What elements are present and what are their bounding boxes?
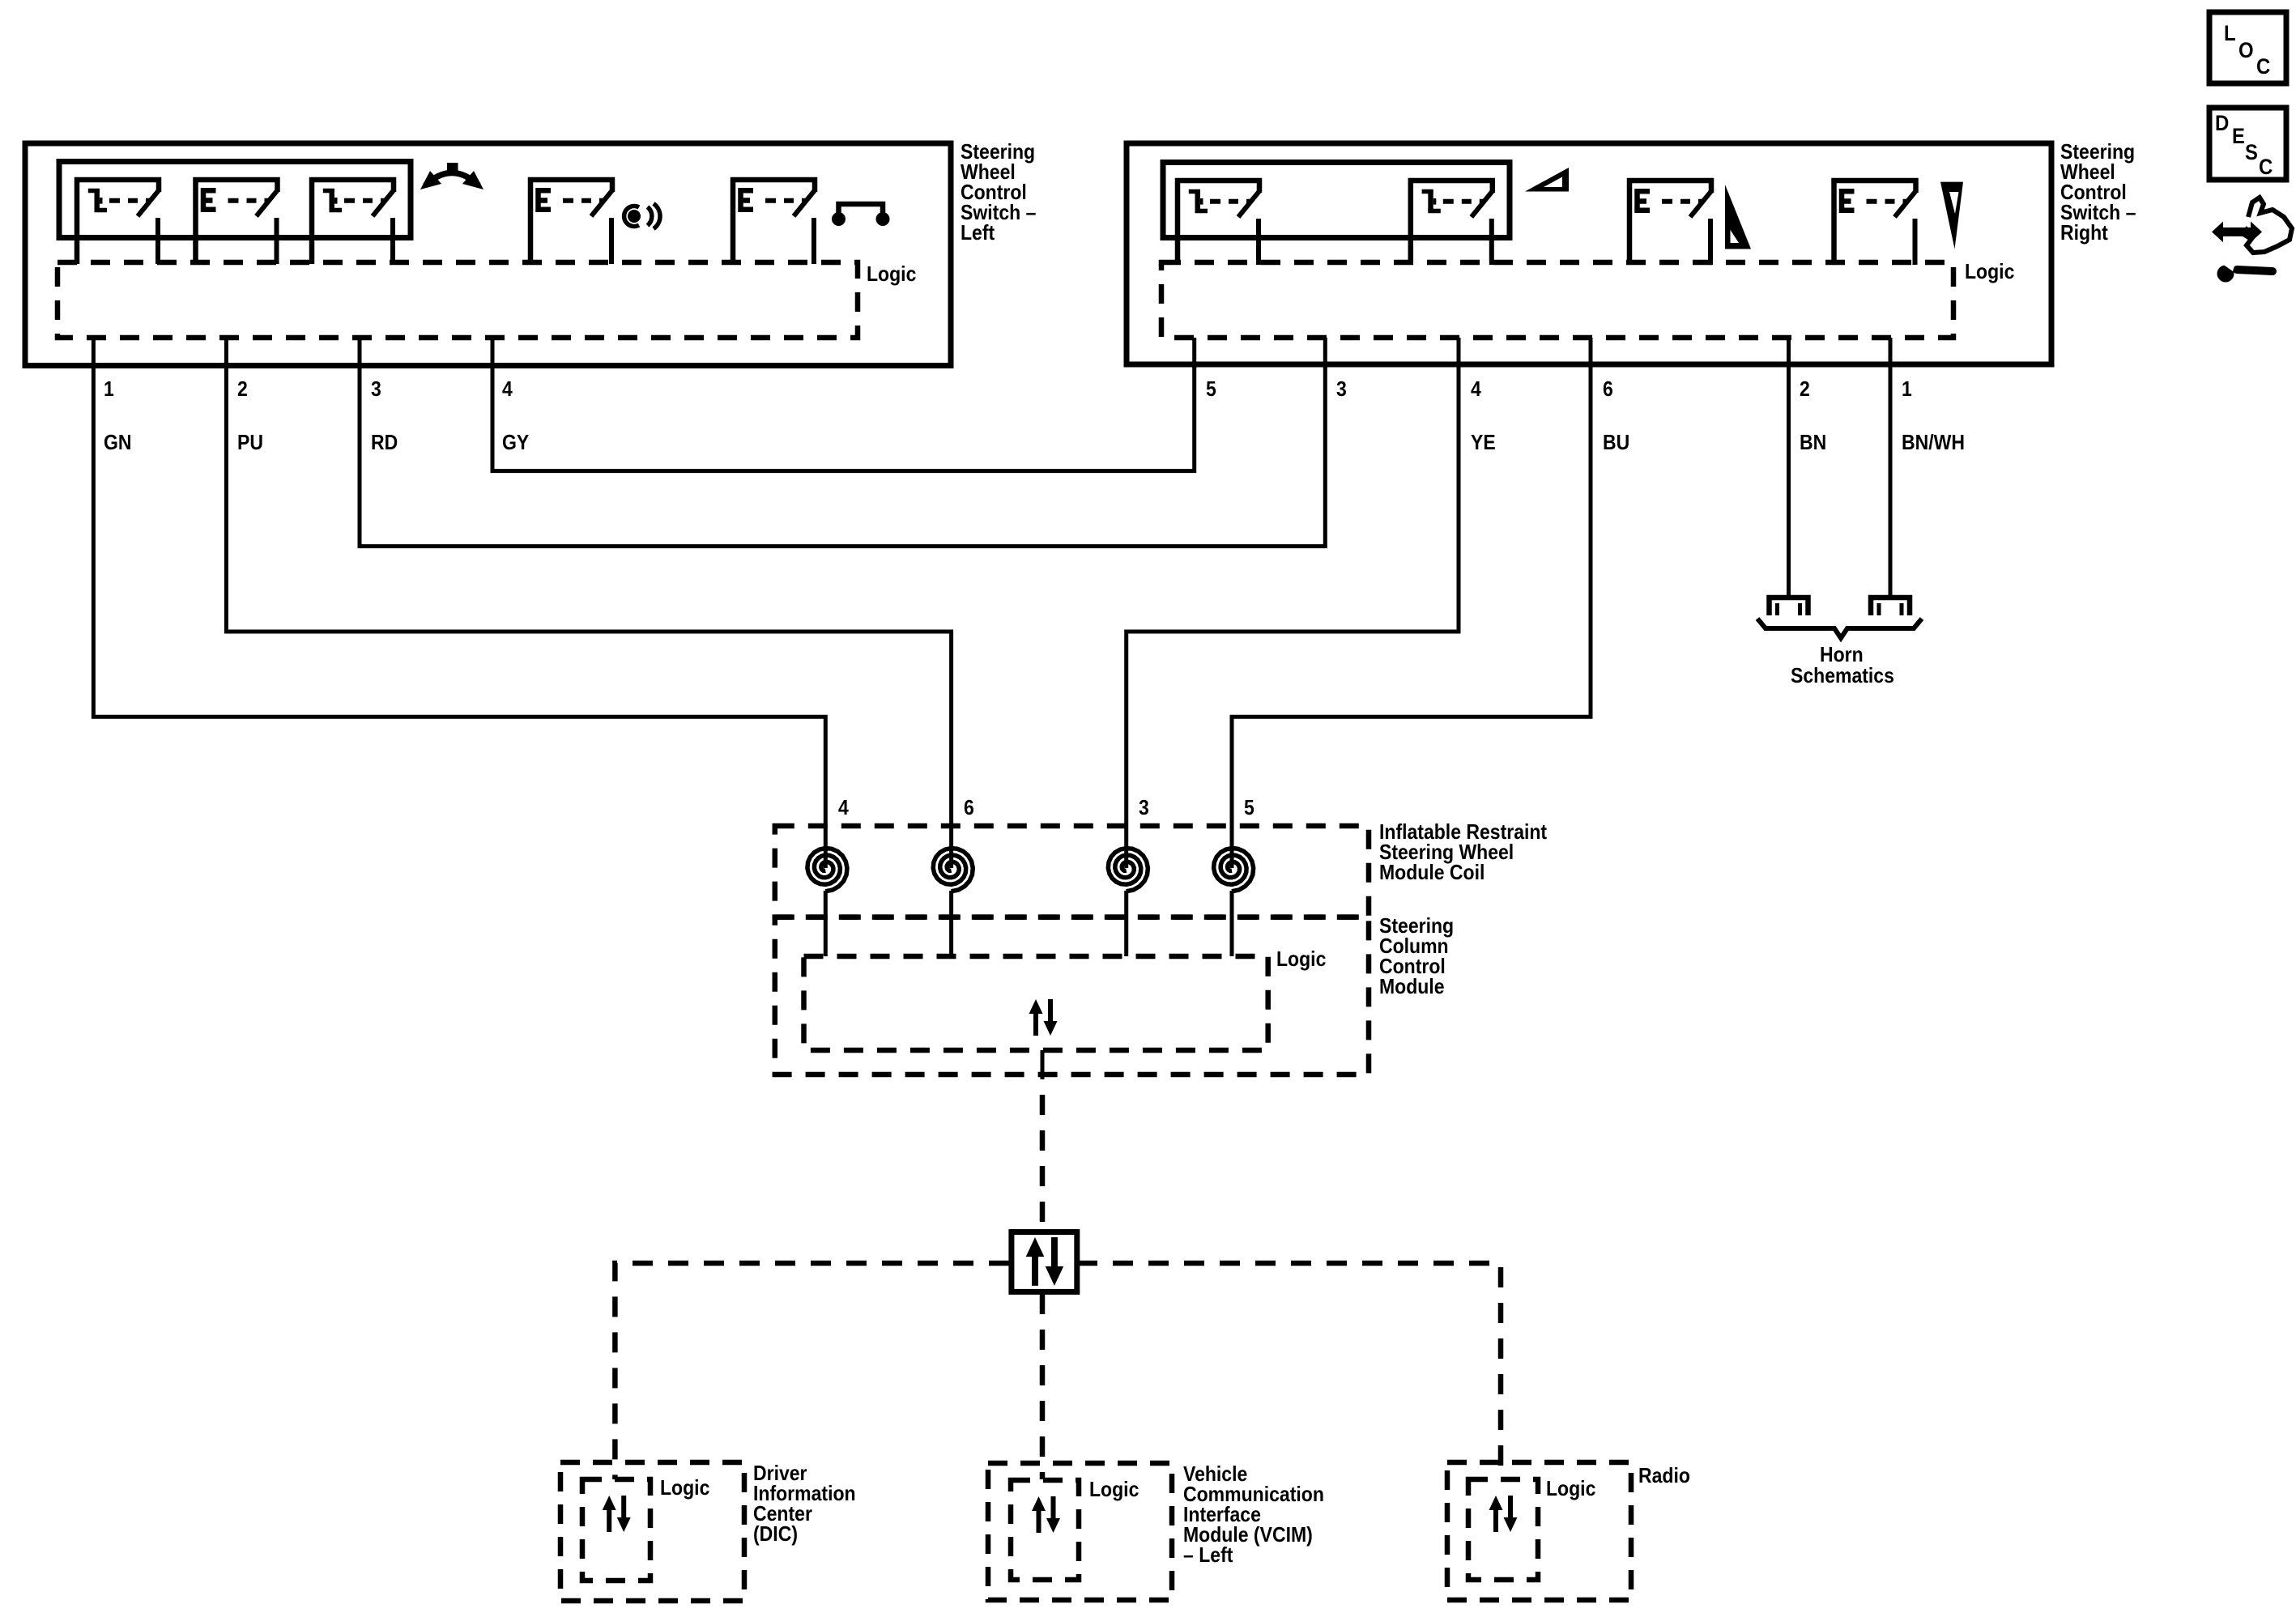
- left box label: [961, 139, 1036, 245]
- switch S9 (seek up contact): [1834, 181, 1916, 265]
- svg-text:BN/WH: BN/WH: [1902, 430, 1965, 454]
- right box: inner switch group box: [1163, 163, 1510, 238]
- svg-text:3: 3: [1139, 795, 1149, 819]
- steering column control module dashed box: [775, 917, 1369, 1074]
- svg-text:BU: BU: [1603, 430, 1629, 454]
- svg-text:C: C: [2259, 155, 2273, 179]
- Driver Information Center (DIC): outer dashed box: [560, 1462, 744, 1601]
- svg-text:2: 2: [237, 377, 248, 401]
- left box pin 4 stub: [491, 338, 495, 368]
- coil L5 spiral: [1214, 849, 1254, 891]
- switch S6 (volume down contact): [1178, 181, 1259, 265]
- right box label: [2060, 139, 2136, 245]
- svg-text:Logic: Logic: [1276, 947, 1326, 971]
- LOC icon box: [2209, 12, 2286, 83]
- wire GY: left pin 4 to right pin 5: [492, 366, 1195, 471]
- Steering Wheel Control Switch - Left: outer box: [25, 143, 951, 366]
- wire YE: right pin 4 to coil pin 3: [1127, 366, 1459, 868]
- switch S4 (voice recognition contact): [530, 180, 612, 264]
- svg-text:5: 5: [1244, 795, 1254, 819]
- right box pin 4 stub: [1457, 338, 1461, 368]
- svg-text:BN: BN: [1800, 430, 1826, 454]
- coil L3 spiral: [1108, 849, 1148, 891]
- coil module dashed box: [775, 826, 1369, 917]
- svg-text:5: 5: [1206, 377, 1216, 401]
- serial bus right branch (dashed): [1077, 1263, 1501, 1479]
- connector symbol on BN/WH wire: [1871, 598, 1910, 615]
- coil L4 spiral: [807, 849, 847, 891]
- svg-text:Logic: Logic: [1089, 1477, 1139, 1501]
- Radio: serial data arrows: [1489, 1496, 1518, 1532]
- horn contacts icon: [832, 204, 890, 226]
- Radio: outer dashed box: [1447, 1462, 1631, 1600]
- Driver Information Center (DIC): logic dashed box: [582, 1479, 650, 1581]
- left box pin 1 stub: [92, 338, 96, 368]
- svg-text:Logic: Logic: [867, 262, 916, 286]
- Driver Information Center (DIC): serial data arrows: [603, 1496, 631, 1532]
- serial bus left branch (dashed): [615, 1263, 1009, 1479]
- DESC icon box: [2209, 108, 2286, 180]
- horn schematics brace: [1757, 619, 1922, 638]
- svg-text:Schematics: Schematics: [1791, 663, 1894, 687]
- Driver Information Center (DIC) label: [753, 1461, 856, 1546]
- Vehicle Communication Interface Module (VCIM) - Left label: [1183, 1462, 1324, 1567]
- SCCM serial data lead: [1041, 1050, 1045, 1079]
- seek down triangle icon: [1725, 185, 1751, 249]
- wire PU: left pin 2 to coil pin 6: [226, 366, 951, 868]
- svg-text:Logic: Logic: [660, 1475, 709, 1500]
- svg-text:PU: PU: [237, 430, 263, 454]
- wire GN: left pin 1 to coil pin 4: [93, 366, 825, 868]
- switch S3 (right arrow rocker contact): [312, 180, 394, 264]
- wire RD: left pin 3 to right pin 3: [360, 366, 1325, 547]
- SCCM serial data arrows: [1029, 999, 1058, 1036]
- svg-text:Left: Left: [961, 220, 995, 245]
- Radio: logic dashed box: [1468, 1479, 1538, 1580]
- svg-text:E: E: [2232, 124, 2245, 148]
- rocker arrows icon: [420, 163, 483, 189]
- coil L5 lower lead: [1230, 891, 1234, 956]
- right box pin 6 stub: [1589, 338, 1593, 368]
- svg-text:4: 4: [1471, 377, 1481, 401]
- coil L4 lower lead: [824, 891, 828, 956]
- right box pin 1 stub: [1889, 338, 1893, 368]
- Vehicle Communication Interface Module (VCIM) - Left: logic dashed box: [1011, 1480, 1079, 1580]
- Radio label: [1638, 1463, 1690, 1487]
- svg-text:(DIC): (DIC): [753, 1521, 798, 1546]
- switch S5 (horn contact): [733, 180, 815, 264]
- switch S2 (center rocker contact): [196, 180, 278, 264]
- wire BN/WH: right pin 1 to horn schematics: [1889, 366, 1893, 598]
- seek up triangle icon: [1940, 182, 1963, 249]
- left box pin 2 stub: [224, 338, 228, 368]
- right box: Logic dashed box: [1161, 262, 1953, 338]
- svg-text:Right: Right: [2060, 220, 2108, 245]
- svg-text:L: L: [2224, 21, 2236, 45]
- SCCM logic dashed box: [804, 956, 1268, 1050]
- connector symbol on BN wire: [1770, 598, 1808, 615]
- svg-text:Module: Module: [1379, 974, 1445, 998]
- svg-text:– Left: – Left: [1183, 1543, 1233, 1567]
- svg-text:O: O: [2238, 38, 2254, 62]
- switch S8 (seek down contact): [1629, 181, 1711, 265]
- coil module label: [1379, 819, 1547, 884]
- svg-text:6: 6: [1603, 377, 1613, 401]
- svg-text:C: C: [2256, 54, 2270, 79]
- wire BN: right pin 2 to horn schematics: [1787, 366, 1791, 598]
- Vehicle Communication Interface Module (VCIM) - Left: outer dashed box: [988, 1463, 1172, 1600]
- serial data junction box: [1012, 1232, 1077, 1292]
- svg-text:D: D: [2215, 111, 2229, 135]
- svg-text:3: 3: [1336, 377, 1347, 401]
- svg-text:4: 4: [502, 377, 513, 401]
- serial data wire SCCM to junction (dashed): [1040, 1095, 1046, 1230]
- Horn Schematics label: [1791, 642, 1894, 687]
- svg-text:Module Coil: Module Coil: [1379, 860, 1485, 884]
- svg-text:4: 4: [838, 795, 849, 819]
- left box pin 3 stub: [358, 338, 362, 368]
- right box pin 3 stub: [1323, 338, 1327, 368]
- svg-text:Logic: Logic: [1546, 1476, 1595, 1500]
- svg-text:RD: RD: [371, 430, 398, 454]
- svg-text:GN: GN: [104, 430, 132, 454]
- switch S1 (left arrow rocker contact): [77, 180, 159, 264]
- svg-text:GY: GY: [502, 430, 529, 454]
- svg-text:Radio: Radio: [1638, 1463, 1690, 1487]
- left box: inner switch group box: [59, 162, 411, 238]
- adjust/repair icon (arrow, hand, wrench): [2212, 198, 2292, 283]
- svg-text:1: 1: [1902, 377, 1912, 401]
- junction box arrows: [1026, 1237, 1064, 1286]
- svg-text:S: S: [2245, 140, 2258, 164]
- Steering Wheel Control Switch - Right: outer box: [1127, 143, 2051, 364]
- svg-text:2: 2: [1800, 377, 1810, 401]
- speaker / voice icon: [624, 204, 660, 229]
- right box pin 5 stub: [1192, 338, 1196, 368]
- right box pin 2 stub: [1787, 338, 1791, 368]
- Vehicle Communication Interface Module (VCIM) - Left: serial data arrows: [1032, 1496, 1060, 1533]
- coil L6 lower lead: [949, 891, 953, 956]
- left box: Logic dashed box: [58, 262, 858, 338]
- coil L3 lower lead: [1124, 891, 1128, 956]
- volume wedge icon: [1525, 168, 1569, 192]
- SCCM label: [1379, 913, 1454, 998]
- svg-text:3: 3: [371, 377, 381, 401]
- svg-text:Logic: Logic: [1965, 259, 2014, 283]
- serial bus center branch (dashed): [1040, 1294, 1046, 1479]
- switch S7 (volume up contact): [1411, 181, 1493, 265]
- svg-text:YE: YE: [1471, 430, 1496, 454]
- svg-text:1: 1: [104, 377, 114, 401]
- svg-text:6: 6: [964, 795, 974, 819]
- wire BU: right pin 6 to coil pin 5: [1232, 366, 1591, 868]
- coil L6 spiral: [933, 849, 973, 891]
